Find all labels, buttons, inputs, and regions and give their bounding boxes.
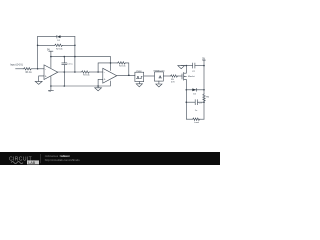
logo LAB box [27,160,39,164]
svg-text:R1 1k: R1 1k [26,72,33,74]
svg-text:http://circuitlab.com/c29rnds: http://circuitlab.com/c29rnds [45,158,80,162]
power tag +9V U1 [47,49,53,57]
svg-text:PWM: PWM [136,71,141,73]
wire U2 top power pin [110,63,112,71]
wire feedback2 left vertical [98,63,117,72]
wire U2 plus stub [98,79,103,86]
node junction input/feedback [37,68,39,70]
logo wave [11,162,23,164]
PWM block X2 [154,70,165,81]
node junction rail x74.9 [74,56,76,58]
node junction rail/feedback2 [110,62,112,64]
op-amp U2 [103,68,117,83]
ground G5 [156,84,162,87]
wire top right row [181,65,192,67]
wire U1 bottom power pin [50,77,52,91]
svg-text:LAB: LAB [28,161,35,165]
wire C1 branch to bottom rail [63,72,65,86]
node junction rail x50.9 [50,56,52,58]
svg-text:Input (0-1V): Input (0-1V) [10,64,23,67]
wire R5 to gate [178,75,182,77]
svg-text:+: + [45,74,47,78]
wire bottom rail [51,81,111,86]
node junction drain [186,65,188,67]
ground G3 [95,86,102,91]
resistor R5 [170,75,178,77]
node junction LED row right [203,89,205,91]
diode D1 [57,35,61,42]
node junction output x74.9 [74,71,76,73]
svg-text:R2 10k: R2 10k [56,49,64,51]
node junction LED row left [186,89,188,91]
wire R2 row right [63,44,75,46]
wire right rail lower [203,100,205,120]
wire X2 to R5 [163,75,170,77]
wire U1 top power pin [50,57,52,68]
wire D1 row left [38,36,57,38]
node Input flag [10,64,23,67]
svg-text:PWM(0-5V): PWM(0-5V) [154,70,165,72]
wire feedback right vertical [74,37,76,72]
wire U2 output row [117,75,135,77]
node junction C3 row left [186,101,188,103]
svg-text:R3 10k: R3 10k [83,74,91,76]
resistor R2 [54,44,63,46]
svg-text:C1 1u: C1 1u [67,64,72,66]
wire C2 to right rail [195,65,204,67]
power tag -9V U1 [48,90,53,93]
wire input row right [32,68,44,70]
node junction R2 right [74,45,76,47]
ground G1 [35,81,42,84]
node junction R2 left [37,45,39,47]
wire R3 to U2 minus [90,71,103,73]
ground G2 [178,66,185,69]
svg-text:-: - [104,70,105,74]
capacitor C2 [192,63,196,73]
svg-text:-: - [45,67,46,71]
wire D1 row right [61,36,75,38]
wire U1 plus stub [39,76,44,82]
wire C3 row [186,101,204,103]
node junction output x64.3 [64,71,66,73]
wire load to right rail [200,118,204,120]
resistor R3 [81,71,90,73]
divider [40,154,42,163]
capacitor C3 [195,100,203,112]
resistor Rload [192,118,200,120]
wire X1 to X2 [144,75,155,77]
node junction bottom rail x98.1 [97,85,99,87]
node junction feedback2 left [97,71,99,73]
capacitor C1 [62,57,73,72]
wire output row U1 [58,71,81,73]
LED D2 [192,88,196,95]
wire source to load [186,90,192,119]
node junction bottom rail x50.9 [50,85,52,87]
wire feedback left vertical [37,37,39,69]
PWM block X1 [135,71,144,82]
resistor R1 [23,68,32,70]
wire LED row [186,89,204,91]
op-amp U1 [44,65,58,80]
transistor M1 [182,66,195,90]
power tag 5V [202,58,205,61]
node junction rail x64.3 [64,56,66,58]
svg-text:R4 10k: R4 10k [119,65,127,67]
node junction output2 [128,74,130,76]
resistor R6 [203,94,210,102]
wire right rail upper [203,60,205,94]
node junction right rail top [203,65,205,67]
wire feedback2 right [126,63,129,75]
watermark bar [0,152,220,165]
wire R2 row left [38,44,55,46]
node junction bottom rail x64.3 [64,85,66,87]
ground G4 [136,84,142,87]
resistor R4 [117,62,126,64]
wire top rail [51,57,111,63]
svg-text:Load: Load [194,122,200,124]
node junction C3 row right [203,101,205,103]
wire input row left [16,68,24,70]
svg-text:Mosfet: Mosfet [188,75,195,78]
svg-text:+: + [104,78,106,82]
wire X1 ground stem [138,82,140,84]
wire X2 ground stem [158,81,160,84]
